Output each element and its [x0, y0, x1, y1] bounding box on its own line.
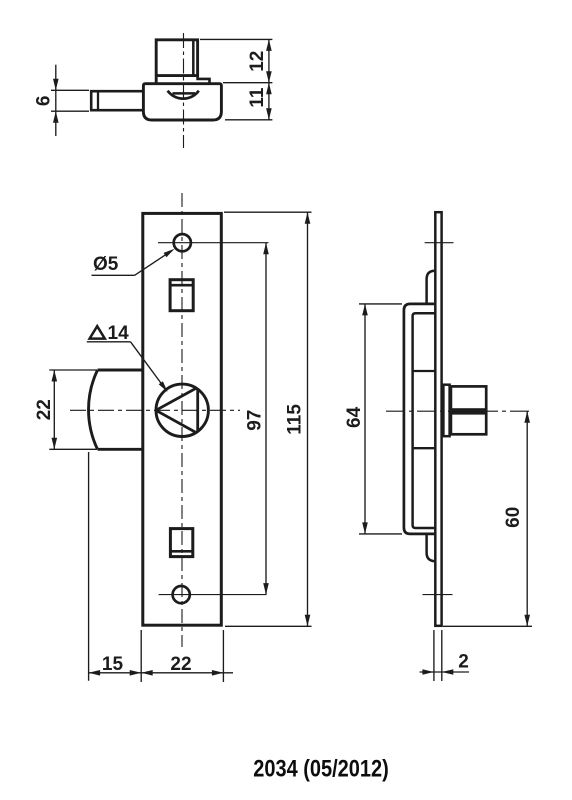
- dimension 2: dimension line: [420, 671, 470, 673]
- side view horizontal centerline: [386, 410, 531, 412]
- dimension 2: label: [458, 652, 469, 673]
- dimension 11 arrows: [266, 83, 272, 120]
- side view knob slot (filled): [452, 408, 486, 414]
- dimension 12 label: [247, 51, 268, 72]
- label Ø5 leader line: [135, 251, 172, 276]
- side view lock body outline: [404, 304, 435, 534]
- dimension 12/11: extension lines: [200, 39, 272, 119]
- front view horizontal centerline through cylinder: [70, 409, 240, 411]
- bottom square hole inner line: [171, 550, 193, 553]
- top square hole: [170, 280, 193, 311]
- label 14 text: [108, 323, 130, 344]
- cylinder housing bottom edge: [98, 448, 142, 451]
- dimension 22 left: label: [34, 399, 55, 420]
- front view vertical centerline: [181, 193, 183, 647]
- cylinder housing top edge: [98, 369, 142, 372]
- dimension 115: dimension line: [307, 212, 309, 626]
- dimension 97: label: [245, 410, 266, 431]
- dimension 60: dimension line: [526, 411, 528, 626]
- dimension 60: arrows: [524, 411, 530, 626]
- triangle spindle: top chord: [156, 388, 196, 410]
- svg-text:22: 22: [34, 399, 55, 420]
- dimension 64: label: [344, 406, 365, 428]
- cylinder circle: [156, 384, 208, 436]
- svg-text:Ø5: Ø5: [93, 254, 119, 275]
- svg-text:14: 14: [108, 323, 130, 344]
- side view bottom spring clip: [427, 534, 435, 561]
- dimension 6: arrows: [53, 79, 59, 123]
- dimension 22 left: arrows: [52, 370, 58, 449]
- svg-text:11: 11: [247, 87, 268, 108]
- side view bottom hole tick: [423, 594, 453, 596]
- label 14 leader line: [131, 342, 166, 390]
- drawing number title: [253, 756, 389, 783]
- dimension 115: extension lines: [224, 212, 312, 626]
- dimension 64: arrows: [362, 304, 368, 534]
- top square hole inner line: [170, 284, 193, 287]
- label Ø5 leader arrow: [164, 249, 175, 258]
- triangle spindle: vertical chord: [196, 389, 199, 432]
- svg-text:12: 12: [247, 51, 268, 72]
- dimension 22 left: extension lines: [49, 370, 97, 449]
- bottom dims: dimension line: [89, 672, 233, 674]
- dimension 97: dimension line: [265, 243, 267, 595]
- dimension 60: bottom extension line: [443, 625, 532, 627]
- label triangle-14 glyph: [90, 326, 105, 338]
- dimension 64: extension lines: [359, 304, 402, 534]
- bottom dims: extension lines: [89, 452, 224, 682]
- top view cylinder chord line: [173, 92, 196, 95]
- top view knob flange step: [198, 76, 210, 83]
- side view knob: [451, 386, 486, 434]
- dimension 22 left: dimension line: [53, 370, 55, 449]
- svg-text:15: 15: [102, 654, 124, 675]
- dimension 60: label: [503, 507, 524, 528]
- dimension 12/11: dimension line: [268, 39, 270, 119]
- label Ø5 underline: [92, 274, 135, 276]
- dimension 15: arrows: [89, 670, 142, 676]
- dimension 115: arrows: [305, 212, 311, 626]
- label 14 leader arrow: [159, 381, 168, 392]
- dimension 15: label: [102, 654, 124, 675]
- side view inner divider upper: [413, 370, 435, 372]
- top view lock body: [143, 84, 221, 120]
- label Ø5 text: [93, 254, 119, 275]
- svg-text:97: 97: [245, 410, 266, 431]
- side view top hole tick: [425, 242, 454, 244]
- triangle spindle: bottom chord: [156, 410, 196, 432]
- side view faceplate (edge-on): [435, 212, 441, 626]
- dimension 22 bottom: label: [170, 654, 191, 675]
- svg-text:6: 6: [34, 96, 55, 107]
- dimension 6: extension lines: [51, 90, 89, 111]
- svg-text:60: 60: [503, 507, 524, 528]
- svg-text:115: 115: [284, 404, 305, 435]
- label 14 underline: [87, 341, 131, 343]
- cylinder housing left arc: [89, 370, 98, 449]
- side view top spring clip: [427, 271, 435, 304]
- side view body inner wall: [413, 313, 435, 528]
- svg-text:2034 (05/2012): 2034 (05/2012): [253, 756, 389, 783]
- dimension 22 bottom: arrows: [141, 670, 223, 676]
- top view knob inner edge line: [192, 40, 195, 75]
- top view cylinder hole arc: [168, 91, 199, 99]
- svg-text:64: 64: [344, 406, 365, 428]
- dimension 64: dimension line: [364, 304, 366, 534]
- top view pin (bolt): [91, 91, 142, 110]
- top screw hole centerline / 97 extension: [158, 242, 269, 244]
- faceplate outline: [143, 213, 222, 625]
- top view vertical centerline: [183, 33, 185, 148]
- dimension 6: label: [34, 96, 55, 107]
- top screw hole Ø5: [174, 234, 191, 251]
- dimension 11 label: [247, 87, 268, 108]
- top view pin inner cap line: [97, 91, 99, 110]
- dimension 2: extension lines: [434, 630, 442, 681]
- svg-text:22: 22: [170, 654, 191, 675]
- dimension 12 arrows: [266, 39, 272, 82]
- dimension 6: dimension line: [55, 65, 57, 136]
- dimension 2: arrows: [422, 669, 453, 675]
- dimension 115: label: [284, 404, 305, 435]
- top view knob outline: [156, 40, 197, 83]
- dimension 97: arrows: [263, 243, 269, 595]
- bottom screw hole: [173, 586, 190, 603]
- bottom screw hole centerline / 97 extension: [159, 594, 267, 596]
- side view inner divider lower: [413, 447, 435, 449]
- side view knob flange: [443, 385, 449, 437]
- bottom square hole: [170, 529, 192, 557]
- svg-text:2: 2: [458, 652, 469, 673]
